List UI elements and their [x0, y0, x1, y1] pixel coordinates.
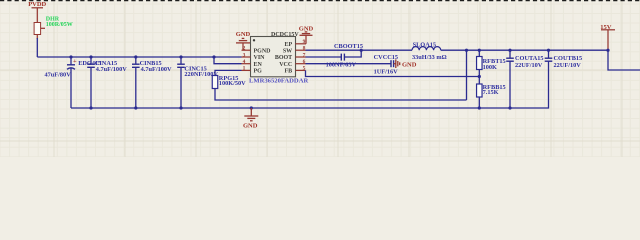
pin 8 SW: [283, 46, 306, 55]
inductor SLOA15: [412, 41, 447, 60]
svg-text:CVCC15: CVCC15: [374, 54, 399, 61]
svg-text:PVDD: PVDD: [28, 1, 46, 8]
capacitor COUTA15: [506, 49, 543, 110]
pin 4 EN: [242, 59, 263, 68]
op-amp U1 LMR36520FADDAR regulator body: [249, 32, 308, 85]
label DHR value (green): [46, 17, 73, 29]
svg-text:CBOOT15: CBOOT15: [334, 43, 363, 50]
pin 5 FB: [285, 66, 306, 75]
wire PG pin to RPG15: [215, 70, 242, 75]
svg-text:22UF/10V: 22UF/10V: [554, 62, 582, 69]
wire RPG15 to pull-up bus: [215, 89, 467, 101]
svg-text:22UF/10V: 22UF/10V: [515, 62, 543, 69]
pin 6 VCC: [279, 59, 305, 68]
capacitor CBOOT15: [326, 43, 363, 69]
svg-text:7: 7: [303, 52, 306, 58]
capacitor COUTB15: [545, 49, 583, 69]
resistor RFBT15: [477, 49, 506, 71]
svg-text:8: 8: [303, 46, 306, 52]
svg-text:SLOA15: SLOA15: [413, 41, 436, 48]
svg-text:GND: GND: [402, 62, 417, 69]
pin 7 BOOT: [275, 52, 306, 61]
wire SW to inductor: [306, 49, 413, 51]
wire FB route: [306, 70, 480, 76]
svg-text:PG: PG: [254, 69, 263, 75]
resistor DHR (input series): [34, 23, 45, 40]
svg-text:1: 1: [243, 66, 246, 72]
svg-text:100NF/63V: 100NF/63V: [326, 61, 357, 68]
resistor RPG15: [212, 75, 246, 88]
wire BOOT to CBOOT15: [306, 56, 342, 58]
svg-text:4.7uF/100V: 4.7uF/100V: [96, 66, 127, 73]
svg-text:+: +: [73, 58, 77, 65]
capacitor CVCC15: [374, 54, 399, 75]
wire input rail PVDD to VIN: [37, 56, 241, 58]
svg-text:7.15K: 7.15K: [483, 89, 499, 96]
svg-text:47uF/80V: 47uF/80V: [45, 72, 72, 79]
wire 15V feed down: [466, 50, 468, 100]
sheet border dashed top: [0, 0, 640, 2]
capacitor CINC15: [177, 55, 218, 109]
power port 15V: [600, 24, 615, 50]
pin 3 VIN: [242, 52, 266, 61]
svg-text:DCDC15V: DCDC15V: [271, 32, 299, 38]
wire inductor to output corner: [441, 49, 608, 51]
wire VCC to CVCC15: [306, 63, 392, 65]
pin 9 EP: [285, 39, 306, 48]
resistor RFBB15: [477, 84, 506, 110]
node FB divider junction: [478, 75, 481, 78]
svg-text:VCC: VCC: [279, 62, 292, 68]
svg-text:VIN: VIN: [254, 55, 266, 61]
power port PVDD: [28, 1, 46, 23]
svg-text:4.7uF/100V: 4.7uF/100V: [141, 66, 172, 73]
svg-text:4: 4: [243, 59, 246, 65]
svg-text:BOOT: BOOT: [275, 55, 292, 61]
svg-text:EP: EP: [285, 42, 293, 48]
svg-text:9: 9: [303, 39, 306, 45]
ground (CVCC15, sideways): [394, 59, 417, 68]
node VIN junction / wire to EN: [212, 55, 241, 63]
svg-text:3: 3: [243, 52, 246, 58]
capacitor CINB15: [132, 55, 172, 109]
svg-text:PGND: PGND: [254, 48, 272, 54]
ground (main, below IC): [243, 106, 258, 129]
svg-text:SW: SW: [283, 48, 292, 54]
wire output to right edge: [608, 50, 640, 70]
svg-text:100R/05W: 100R/05W: [46, 22, 73, 28]
svg-text:LMR36520FADDAR: LMR36520FADDAR: [249, 78, 308, 85]
svg-text:FB: FB: [285, 69, 293, 75]
svg-text:33uH/33 mΩ: 33uH/33 mΩ: [412, 54, 447, 61]
svg-text:100K: 100K: [483, 64, 497, 71]
node output corner: [606, 49, 609, 52]
svg-text:GND: GND: [236, 31, 251, 38]
ground (above pin 2, flipped): [236, 31, 251, 50]
node SW/CBOOT junction: [360, 49, 363, 52]
svg-text:EN: EN: [254, 62, 263, 68]
svg-text:1UF/16V: 1UF/16V: [374, 69, 399, 76]
svg-text:GND: GND: [243, 123, 258, 130]
svg-text:6: 6: [303, 59, 306, 65]
capacitor CINA15: [87, 55, 127, 109]
wire PVDD column down to input rail: [36, 38, 38, 57]
wire GND bus: [71, 61, 549, 108]
pin 2 PGND: [242, 46, 272, 55]
pin 1 PG: [242, 66, 263, 75]
ground (above pin 9 EP, flipped): [299, 26, 314, 44]
svg-text:100K/50V: 100K/50V: [219, 80, 246, 87]
capacitor EDG415 (electrolytic 47uF/80V): [45, 55, 102, 108]
